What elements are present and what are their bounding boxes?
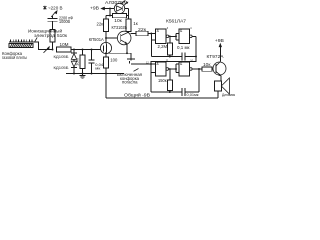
op-amp DD1.3 NAND gate xyxy=(151,59,176,76)
wire DD1.3 tied input and feedback rail xyxy=(151,64,170,92)
svg-text:~220 В: ~220 В xyxy=(48,6,63,11)
transistor VT3 KT972A xyxy=(207,47,227,81)
op-amp DD1.4 NAND gate xyxy=(175,60,202,76)
node VT2 base tap xyxy=(105,37,107,39)
node LED branch xyxy=(109,8,111,10)
svg-text:Общий -9В: Общий -9В xyxy=(124,93,150,98)
mains connection arrow xyxy=(51,10,57,17)
svg-text:100: 100 xyxy=(110,57,118,62)
node signal junction xyxy=(52,49,54,51)
capacitor C2 0.047uF xyxy=(88,50,106,74)
svg-text:10к: 10к xyxy=(203,62,211,67)
op-amp DD1.1 NAND gate xyxy=(156,27,176,44)
speaker BA1 xyxy=(215,78,236,98)
svg-text:КД105Б: КД105Б xyxy=(54,54,69,59)
node switch join xyxy=(150,63,152,65)
svg-text:+9В: +9В xyxy=(90,6,99,11)
capacitor C1 2200pF 1000V xyxy=(48,15,74,29)
svg-text:0,01мк: 0,01мк xyxy=(187,92,199,97)
capacitor C4 0.01uF xyxy=(170,88,199,97)
node DD1.4 out xyxy=(198,68,200,70)
svg-text:КД105Б: КД105Б xyxy=(54,65,69,70)
svg-text:1000В: 1000В xyxy=(59,19,70,24)
resistor R10 150k xyxy=(158,68,172,92)
svg-text:1к: 1к xyxy=(133,21,138,26)
svg-text:+9В: +9В xyxy=(215,38,224,43)
resistor R6 10k xyxy=(113,13,129,23)
resistor R4 100 xyxy=(104,53,118,73)
wire emitter node row xyxy=(106,52,131,54)
supply +9V arrow collector xyxy=(215,38,224,47)
svg-text:погасла: погасла xyxy=(122,80,138,85)
node VT1 source xyxy=(105,52,107,54)
resistor R11 10k xyxy=(202,62,216,71)
wire mid ground rail xyxy=(66,73,124,75)
svg-text:К561ЛА7: К561ЛА7 xyxy=(166,19,186,24)
node mains ~220V label xyxy=(43,6,62,11)
wire R6 branch xyxy=(109,9,112,17)
svg-text:150к: 150к xyxy=(158,78,167,83)
svg-text:КП501А: КП501А xyxy=(89,37,104,42)
svg-text:мк: мк xyxy=(95,66,100,71)
switch SB1 push-button xyxy=(127,53,151,64)
wire VT2 base xyxy=(106,37,121,39)
svg-text:10к: 10к xyxy=(114,18,122,23)
svg-text:газовой плиты: газовой плиты xyxy=(2,54,27,60)
op-amp DD1.2 NAND gate xyxy=(175,27,196,57)
wire LED right rail xyxy=(128,9,130,20)
svg-text:КТ3102Б: КТ3102Б xyxy=(112,25,128,30)
gas burner (hatched) xyxy=(9,44,33,48)
connector X1 (probe arrow) xyxy=(43,46,53,53)
ground xyxy=(79,74,85,79)
diode VD2 KD105B xyxy=(54,61,78,73)
node C2 top xyxy=(91,49,93,51)
wire enable to gate1 xyxy=(130,33,136,35)
transistor VT1 KP501A xyxy=(89,37,112,54)
resistor R2 10M xyxy=(57,42,72,52)
resistor R7 1k xyxy=(126,19,138,32)
LED HL1 AL307BM xyxy=(105,0,129,14)
wire gating line to DD1.3 xyxy=(151,57,196,65)
node R3 top xyxy=(82,49,84,51)
wire signal row xyxy=(71,49,105,51)
node rail junctions xyxy=(73,73,75,75)
svg-text:2,2М: 2,2М xyxy=(158,44,168,49)
node diode tap xyxy=(73,49,75,51)
resistor R1 510k xyxy=(50,30,67,50)
svg-text:КТ972А: КТ972А xyxy=(207,54,224,59)
node oscillator2 RC xyxy=(169,91,171,93)
svg-text:10М: 10М xyxy=(60,42,69,47)
supply +9V arrow xyxy=(90,6,114,11)
node VT2 emitter junction xyxy=(126,52,128,54)
resistor R8 22k xyxy=(136,27,156,36)
label ionization electrode xyxy=(28,27,62,41)
wire electrode to connector xyxy=(34,42,43,50)
svg-text:11: 11 xyxy=(166,59,169,63)
wire oscillator2 feedback xyxy=(198,69,200,92)
svg-text:Динамик: Динамик xyxy=(222,93,235,97)
electrode rod with flames xyxy=(9,39,34,42)
label burner of gas stove xyxy=(2,51,27,60)
svg-text:10М: 10М xyxy=(74,58,79,66)
node oscillator1 out xyxy=(195,56,197,58)
svg-text:22к: 22к xyxy=(97,21,104,26)
transistor VT2 KT3102B xyxy=(112,25,132,53)
svg-text:0,1 мк: 0,1 мк xyxy=(177,45,190,50)
node gate1 input xyxy=(150,33,152,35)
wire DD1.1 tied input and feedback rail xyxy=(151,34,170,57)
wire common bottom rail xyxy=(106,74,218,99)
node A oscillator1 xyxy=(169,56,171,58)
capacitor C3 0.1uF xyxy=(170,45,196,61)
resistor R3 10M vertical xyxy=(74,50,85,74)
label switch action xyxy=(117,69,142,85)
resistor R9 2.2M xyxy=(158,35,173,56)
diode VD1 KD105B xyxy=(54,50,78,62)
resistor R5 22k xyxy=(97,16,111,43)
